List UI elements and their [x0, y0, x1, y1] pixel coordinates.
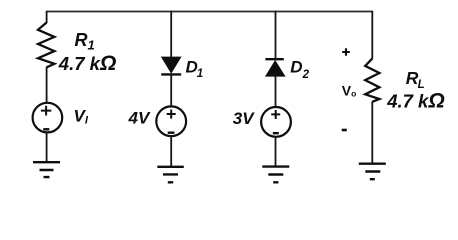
wire left branch stub [46, 11, 48, 23]
wire top rail [47, 11, 373, 13]
resistor R1 [38, 23, 54, 68]
svg-text:D2: D2 [290, 57, 309, 81]
ground (RL) [359, 164, 386, 180]
diode D1 [162, 57, 181, 72]
wire D2 to 3V [275, 76, 277, 108]
svg-text:4V: 4V [128, 109, 151, 128]
wire 4V to ground [170, 136, 172, 167]
label minus (Vo) [342, 129, 347, 132]
wire 3V to ground [275, 137, 277, 167]
voltage source 3V [261, 107, 291, 137]
wire D2 branch top [275, 11, 277, 60]
svg-text:4.7 kΩ: 4.7 kΩ [386, 90, 445, 113]
svg-text:VI: VI [74, 107, 89, 127]
svg-text:D1: D1 [186, 57, 204, 80]
diode D2 [265, 58, 283, 60]
svg-text:R1: R1 [75, 30, 95, 53]
wire RL branch top [371, 11, 373, 59]
wire VI to ground [46, 132, 48, 162]
wire RL to ground [371, 102, 373, 164]
svg-text:3V: 3V [233, 109, 255, 128]
ground (VI) [33, 162, 60, 177]
ground (4V) [157, 167, 184, 183]
ground (3V) [262, 167, 289, 183]
svg-text:4.7 kΩ: 4.7 kΩ [58, 52, 117, 75]
svg-text:Vo: Vo [342, 83, 357, 99]
wire D1 to 4V [170, 76, 172, 108]
svg-text:RL: RL [406, 68, 425, 91]
wire R1 to VI [46, 67, 48, 103]
resistor RL [365, 59, 379, 102]
voltage source VI [33, 103, 63, 133]
label plus (Vo) [342, 48, 350, 56]
voltage source 4V [156, 106, 186, 136]
wire D1 branch top [170, 11, 172, 58]
